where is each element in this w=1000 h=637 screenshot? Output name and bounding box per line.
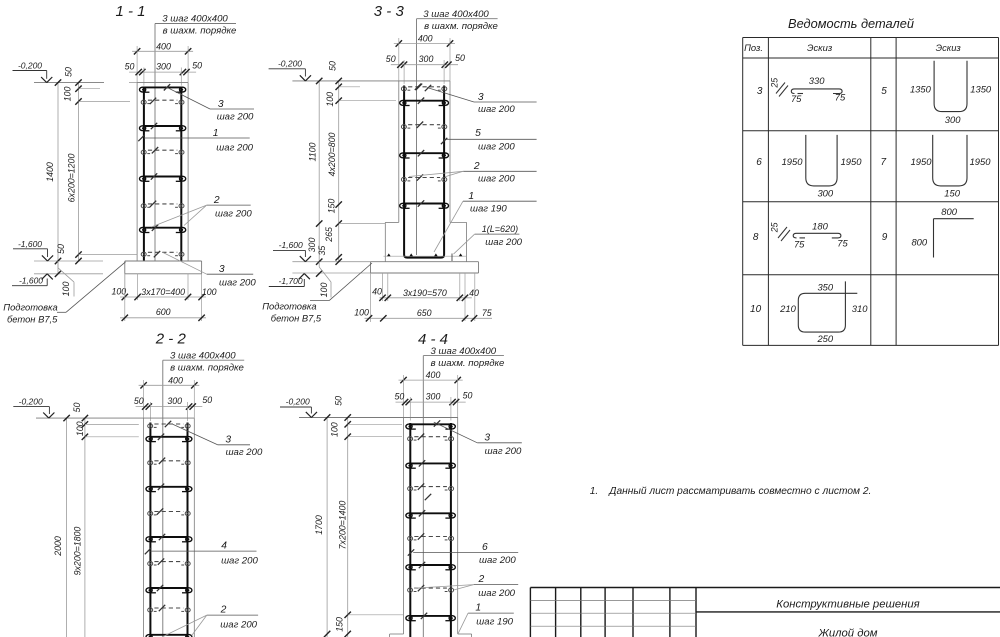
section 3-3 bottom dims 100|650|75 — [354, 307, 492, 321]
section 3-3 leader pos 5 — [441, 128, 537, 152]
svg-text:25: 25 — [769, 222, 779, 233]
svg-text:300: 300 — [307, 238, 317, 253]
section 3-3 annotation — [417, 9, 498, 32]
section 3-3 annotation leader vertical — [416, 19, 418, 255]
svg-text:3 шаг 400х400: 3 шаг 400х400 — [162, 14, 228, 25]
svg-text:шаг 200: шаг 200 — [485, 446, 522, 457]
tie slashes on center 4-4 — [418, 434, 424, 440]
svg-text:50: 50 — [56, 244, 66, 254]
section 1-1 footing level ext lines — [34, 260, 103, 262]
stirrup row — [140, 176, 186, 181]
stirrup row — [146, 437, 192, 442]
tie row (dashed) — [408, 437, 454, 441]
svg-text:400: 400 — [156, 41, 171, 51]
svg-text:3: 3 — [484, 432, 490, 443]
section 1-1 podgotovka label — [3, 262, 125, 325]
svg-text:2: 2 — [478, 574, 485, 585]
svg-text:9: 9 — [882, 232, 888, 243]
svg-text:3 шаг 400х400: 3 шаг 400х400 — [423, 9, 489, 20]
svg-text:шаг 190: шаг 190 — [476, 616, 513, 627]
svg-text:650: 650 — [417, 308, 432, 318]
svg-text:100: 100 — [202, 287, 217, 297]
svg-text:350: 350 — [817, 281, 833, 292]
svg-text:-1,600: -1,600 — [19, 276, 43, 286]
section 2-2 left dim chain 50|100|9x200=1800 — [72, 403, 139, 637]
section 3-3 leader pos 1(L=620) — [454, 224, 523, 254]
svg-text:75: 75 — [837, 238, 848, 249]
stirrup row — [146, 588, 192, 593]
stirrup row — [406, 616, 455, 621]
svg-text:50: 50 — [72, 403, 82, 413]
svg-text:Подготовка: Подготовка — [3, 302, 57, 313]
section 2-2 dim 50|300|50 — [134, 395, 212, 421]
section 2-2 leader pos 2 — [162, 605, 258, 637]
section 4-4 left dim chain 50|100|7x200=1400|150 — [330, 396, 404, 637]
svg-text:265: 265 — [324, 227, 334, 243]
svg-text:Конструктивные решения: Конструктивные решения — [776, 599, 919, 611]
svg-text:шаг 200: шаг 200 — [478, 588, 515, 599]
section 1-1 elevation -1,600 (podgotovka) — [12, 274, 53, 286]
svg-text:25: 25 — [770, 78, 780, 89]
tie row (dashed) — [408, 487, 454, 491]
section 3-3 dim 400 — [394, 34, 455, 81]
section 2-2 annotation leader vertical — [162, 360, 164, 637]
svg-text:шаг 200: шаг 200 — [216, 143, 253, 154]
svg-text:4х200=800: 4х200=800 — [327, 133, 337, 177]
svg-text:6х200=1200: 6х200=1200 — [67, 154, 77, 203]
sketch pos 7: U-bar 1950/150 — [911, 135, 992, 199]
section 1-1 bottom dims 100|3x170=400|100 — [111, 274, 216, 300]
tie row (dashed) — [401, 87, 446, 91]
svg-text:100: 100 — [325, 92, 335, 107]
svg-text:шаг 200: шаг 200 — [226, 447, 263, 458]
section 2-2 vertical rebar left — [149, 423, 151, 637]
section 4-4 left dim chain 1700 — [314, 414, 330, 637]
svg-text:100: 100 — [61, 282, 71, 297]
svg-text:150: 150 — [327, 199, 337, 214]
svg-text:75: 75 — [791, 93, 802, 104]
svg-text:50: 50 — [134, 396, 144, 406]
section 3-3 footing level ext lines — [292, 261, 370, 263]
svg-text:300: 300 — [419, 54, 434, 64]
svg-text:1.: 1. — [590, 486, 599, 497]
tie row (dashed) — [408, 536, 454, 540]
svg-text:1 - 1: 1 - 1 — [115, 3, 145, 20]
stirrup row — [406, 463, 455, 468]
tie row (dashed) — [141, 100, 184, 104]
svg-text:600: 600 — [156, 307, 171, 317]
svg-text:75: 75 — [835, 92, 846, 103]
svg-text:3: 3 — [219, 264, 225, 275]
section 3-3 left dim chain 1100|300 — [307, 78, 323, 277]
svg-text:шаг 200: шаг 200 — [220, 619, 257, 630]
stirrup row — [406, 513, 455, 518]
svg-text:2 - 2: 2 - 2 — [155, 330, 187, 347]
sketch pos 3: bar 330 with hooks — [770, 75, 846, 104]
section 3-3 left dim chain 50|100|4x200=800|150|265|35 — [317, 61, 396, 265]
svg-text:150: 150 — [944, 188, 960, 199]
section 1-1 left dim chain 50|100|6x200=1200|50 — [56, 67, 137, 264]
svg-text:в шахм. порядке: в шахм. порядке — [170, 363, 244, 374]
section 3-3 elevation -1,600 — [273, 240, 311, 262]
svg-text:-0,200: -0,200 — [19, 396, 43, 406]
section 3-3 dim 50|300|50 — [386, 53, 465, 84]
svg-text:330: 330 — [809, 75, 825, 86]
tie slashes on center 3-3 — [415, 84, 421, 90]
section 2-2 level line -0,200 — [13, 396, 143, 418]
section 4-4 level line -0,200 — [280, 397, 404, 418]
svg-text:210: 210 — [779, 303, 796, 314]
svg-text:1700: 1700 — [314, 515, 324, 535]
svg-text:1950: 1950 — [782, 156, 804, 167]
sketch pos 10: closed loop 350/210/310/250 — [779, 281, 868, 344]
svg-text:Данный лист рассматривать совм: Данный лист рассматривать совместно с ли… — [608, 486, 871, 497]
svg-text:50: 50 — [395, 392, 405, 402]
svg-text:50: 50 — [125, 62, 135, 72]
section 4-4 leader pos 3 — [434, 420, 522, 457]
stirrup row — [146, 635, 192, 637]
svg-text:100: 100 — [111, 287, 126, 297]
tie row (dashed) — [401, 177, 446, 181]
section 3-3 leader pos 1 шаг 190 — [434, 191, 537, 252]
svg-text:400: 400 — [168, 375, 183, 385]
sketch pos 6: U-bar 1950/300 — [782, 135, 863, 199]
svg-text:50: 50 — [334, 396, 344, 406]
tie row (dashed) — [141, 252, 184, 256]
section 2-2 vertical rebar right — [187, 423, 189, 637]
svg-text:Ведомость деталей: Ведомость деталей — [788, 16, 914, 31]
section 2-2 column outline — [144, 418, 195, 637]
tie row (dashed) — [148, 562, 191, 566]
svg-text:10: 10 — [750, 304, 762, 315]
section 1-1 vertical rebar left — [143, 87, 145, 261]
section 2-2 dim 400 — [139, 375, 200, 418]
section 3-3 footing — [371, 262, 479, 273]
note 1 — [590, 486, 872, 497]
section 3-3 column outline with pedestal step — [385, 81, 466, 262]
section 2-2 leader pos 4 — [145, 541, 259, 567]
svg-text:6: 6 — [482, 542, 488, 553]
tie row (dashed) — [148, 608, 191, 612]
section 1-1 left dim chain 1400 — [45, 79, 61, 277]
section 3-3 vertical rebar left (U) — [404, 86, 444, 258]
section 1-1 elevation -1,600 (footing top) — [13, 239, 53, 261]
section 4-4 dim 50|300|50 — [395, 391, 473, 421]
svg-text:шаг 200: шаг 200 — [219, 277, 256, 288]
stirrup row — [406, 424, 455, 429]
svg-text:1400: 1400 — [45, 162, 55, 182]
svg-text:50: 50 — [386, 54, 396, 64]
svg-text:100: 100 — [63, 87, 73, 102]
svg-text:-0,200: -0,200 — [18, 60, 42, 70]
stirrup row — [400, 153, 449, 158]
svg-text:3: 3 — [218, 99, 224, 110]
svg-text:1950: 1950 — [841, 156, 863, 167]
svg-text:5: 5 — [881, 86, 887, 97]
stirrup row — [406, 565, 455, 570]
section 1-1 dim 50|300|50 — [125, 61, 202, 86]
svg-text:в шахм. порядке: в шахм. порядке — [424, 21, 498, 32]
tie row (dashed) — [401, 125, 446, 129]
tie row (dashed) — [141, 150, 184, 154]
section 1-1 leader pos 3 (top) — [164, 84, 254, 122]
svg-text:50: 50 — [64, 67, 74, 77]
section 4-4 leader pos 1 шаг 190 — [458, 603, 514, 634]
svg-text:7: 7 — [881, 157, 887, 168]
section 2-2 left dim chain 2000 — [53, 415, 70, 637]
section 4-4 dim 400 — [399, 370, 463, 417]
svg-text:300: 300 — [156, 62, 171, 72]
svg-text:40: 40 — [469, 288, 479, 298]
svg-text:250: 250 — [816, 333, 833, 344]
section 4-4 annotation leader vertical — [422, 356, 424, 637]
svg-text:шаг 190: шаг 190 — [470, 204, 507, 215]
svg-text:3 - 3: 3 - 3 — [374, 3, 405, 20]
svg-text:75: 75 — [482, 308, 492, 318]
svg-text:2: 2 — [213, 195, 220, 206]
section 2-2 leader pos 3 — [172, 424, 263, 458]
svg-text:1350: 1350 — [970, 84, 992, 95]
svg-text:3: 3 — [225, 434, 231, 445]
svg-text:1100: 1100 — [308, 142, 318, 161]
svg-text:Эскиз: Эскиз — [936, 42, 962, 53]
svg-text:Поз.: Поз. — [744, 42, 763, 53]
tie row (dashed) — [148, 424, 191, 428]
svg-text:1(L=620): 1(L=620) — [482, 224, 518, 234]
section 1-1 vertical rebar right — [180, 87, 182, 261]
stirrup row — [146, 487, 192, 492]
section 3-3 podgotovka label — [262, 263, 372, 323]
tie slashes on center 2-2 — [165, 421, 171, 427]
section 1-1 leader pos 1 — [138, 128, 253, 154]
svg-text:400: 400 — [418, 34, 433, 44]
section 3-3 bottom dims 40|3x190=570|40 — [371, 273, 479, 322]
svg-text:180: 180 — [812, 221, 828, 232]
section 1-1 bottom dim 600 — [120, 274, 206, 321]
svg-text:5: 5 — [475, 128, 481, 139]
svg-text:2000: 2000 — [53, 536, 63, 557]
svg-text:3: 3 — [757, 86, 763, 97]
section 4-4 vertical rebar left — [409, 423, 411, 637]
svg-text:1: 1 — [213, 128, 219, 139]
svg-text:6: 6 — [756, 157, 762, 168]
svg-text:3х190=570: 3х190=570 — [403, 288, 447, 298]
section 1-1 column outline — [137, 83, 188, 261]
svg-text:8: 8 — [753, 232, 759, 243]
tie slashes on center — [150, 98, 156, 104]
svg-text:1: 1 — [475, 603, 481, 614]
svg-text:шаг 200: шаг 200 — [478, 104, 515, 115]
section 4-4 leader pos 6 — [408, 542, 518, 566]
section 4-4 vertical rebar right — [450, 423, 452, 637]
svg-text:-1,600: -1,600 — [279, 240, 303, 250]
svg-text:1950: 1950 — [911, 156, 933, 167]
svg-text:3х170=400: 3х170=400 — [141, 287, 185, 297]
svg-text:Эскиз: Эскиз — [807, 42, 833, 53]
section 3-3 leader pos 2 — [409, 161, 537, 185]
section 1-1 annotation leader vertical — [154, 24, 156, 262]
svg-text:75: 75 — [794, 239, 805, 250]
svg-text:3: 3 — [478, 92, 484, 103]
section 4-4 leader pos 2 — [415, 574, 518, 599]
stirrup row — [400, 203, 449, 208]
svg-text:Жилой дом: Жилой дом — [818, 628, 878, 637]
svg-text:300: 300 — [426, 392, 441, 402]
svg-text:шаг 200: шаг 200 — [217, 111, 254, 122]
svg-text:800: 800 — [941, 206, 957, 217]
title block frame — [530, 588, 1000, 637]
section 1-1 footing — [125, 261, 202, 274]
svg-text:в шахм. порядке: в шахм. порядке — [431, 358, 505, 369]
svg-text:1: 1 — [468, 191, 474, 202]
svg-text:150: 150 — [334, 617, 344, 632]
svg-text:бетон В7,5: бетон В7,5 — [271, 312, 322, 323]
svg-text:1350: 1350 — [910, 84, 932, 95]
svg-text:бетон В7,5: бетон В7,5 — [7, 313, 58, 324]
svg-text:100: 100 — [75, 421, 85, 436]
section 1-1 level line -0,200 — [13, 60, 138, 82]
svg-text:7х200=1400: 7х200=1400 — [337, 501, 347, 550]
svg-text:40: 40 — [372, 286, 382, 296]
svg-text:310: 310 — [852, 303, 868, 314]
svg-text:300: 300 — [945, 114, 961, 125]
sketch pos 9: L-bar 800x800 — [911, 206, 973, 257]
svg-text:шаг 200: шаг 200 — [221, 555, 258, 566]
svg-text:100: 100 — [319, 283, 329, 298]
section 3-3 leader pos 3 — [416, 84, 537, 115]
tie row (dashed) — [148, 511, 191, 515]
stirrup row — [140, 87, 186, 92]
section 1-1 leader pos 2 — [151, 195, 252, 227]
stirrup row — [140, 228, 186, 233]
stirrup row — [400, 101, 449, 106]
svg-text:Подготовка: Подготовка — [262, 300, 316, 311]
section 3-3 bottom bars line with section triangles — [384, 253, 467, 261]
section 1-1 leader pos 3 (bottom) — [163, 253, 256, 289]
svg-text:9х200=1800: 9х200=1800 — [73, 527, 83, 576]
svg-text:50: 50 — [328, 61, 338, 71]
svg-text:35: 35 — [317, 246, 327, 256]
svg-text:-0,200: -0,200 — [278, 59, 302, 69]
svg-text:2: 2 — [220, 605, 227, 616]
sketch pos 8: bar 180 with hooks — [769, 221, 848, 250]
section 1-1 dim 400 — [132, 41, 193, 82]
svg-text:50: 50 — [192, 61, 202, 71]
svg-text:в шахм. порядке: в шахм. порядке — [163, 26, 237, 37]
svg-text:шаг 200: шаг 200 — [478, 173, 515, 184]
svg-text:300: 300 — [817, 188, 833, 199]
svg-text:4: 4 — [221, 541, 227, 552]
svg-text:400: 400 — [426, 370, 441, 380]
svg-text:-0,200: -0,200 — [286, 397, 310, 407]
svg-text:шаг 200: шаг 200 — [485, 237, 522, 248]
svg-text:шаг 200: шаг 200 — [478, 141, 515, 152]
section 1-1 bottom 100 dim jog — [58, 261, 74, 297]
tie row (dashed) — [408, 588, 454, 592]
svg-text:1950: 1950 — [970, 156, 992, 167]
svg-text:800: 800 — [911, 237, 927, 248]
stirrup row — [140, 126, 186, 131]
tie row (dashed) — [148, 461, 191, 465]
svg-text:-1,700: -1,700 — [279, 276, 303, 286]
svg-text:шаг 200: шаг 200 — [215, 208, 252, 219]
svg-text:шаг 200: шаг 200 — [479, 555, 516, 566]
svg-text:100: 100 — [330, 422, 340, 437]
svg-text:-1,600: -1,600 — [18, 239, 42, 249]
svg-text:50: 50 — [463, 391, 473, 401]
table grid — [743, 38, 999, 346]
section 3-3 level line -0,200 — [269, 59, 399, 81]
sketch pos 5: U-bar 1350/300 — [910, 61, 992, 125]
section 2-2 annotation — [163, 351, 244, 374]
svg-text:2: 2 — [473, 161, 480, 172]
stirrup row — [146, 537, 192, 542]
section 4-4 annotation — [423, 346, 504, 369]
section 4-4 column outline with step — [390, 418, 472, 637]
svg-text:50: 50 — [455, 53, 465, 63]
svg-text:50: 50 — [202, 395, 212, 405]
svg-text:100: 100 — [354, 307, 369, 317]
svg-text:300: 300 — [167, 396, 182, 406]
section 3-3 elevation -1,700 — [269, 274, 310, 287]
section 1-1 annotation "3 шаг 400х400 / в шахм. порядке" — [155, 14, 236, 37]
tie row (dashed) — [141, 204, 184, 208]
section 3-3 bottom 100 dim jog — [319, 262, 331, 298]
